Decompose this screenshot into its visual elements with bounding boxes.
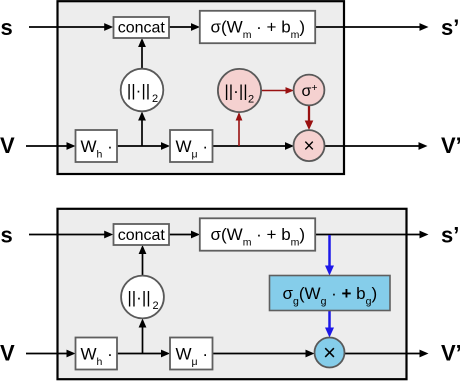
wire norm circle to concat (top) [141,46,143,70]
red wire branch up from V line to pink norm circle [238,120,240,146]
multiply circle (top, pink) [294,130,325,161]
svg-text:2: 2 [152,93,158,105]
norm circle (top, white) [121,69,164,112]
wire V input line (top) [26,145,67,147]
wire s input line (bottom) [29,234,105,236]
wire norm circle to concat (bottom) [142,253,144,276]
wire V input line (bottom) [26,353,67,355]
blue wire branch down from s-prime line to gate box [328,235,331,267]
wire blue multiply circle to V-prime output (bottom) [345,353,420,355]
svg-text:s: s [1,15,13,40]
bottom module outer box [58,209,407,379]
svg-text:||·||: ||·|| [127,81,150,100]
sigma-plus circle (pink) [294,75,325,106]
svg-text:V’: V’ [441,133,460,158]
wire concat to sigma box (bottom) [169,234,192,236]
svg-text:concat: concat [118,227,166,244]
pink norm circle [218,69,261,112]
red wire pink norm circle to sigma-plus circle [261,90,286,92]
wire sigma box to s-prime output (bottom) [315,234,420,236]
sigma(Wm + bm) box (top) [200,11,315,43]
wire Wmu to multiply circle (top) [213,145,286,147]
concat box (top) [114,17,170,38]
svg-text:V’: V’ [441,341,460,366]
svg-text:s: s [1,222,13,247]
wire s input line (top) [29,26,105,28]
svg-text:||·||: ||·|| [127,288,150,307]
norm circle (bottom, white) [121,276,164,319]
wire branch up from V line to norm circle (top) [141,120,143,147]
top module outer box [58,1,345,174]
Wh box (bottom) [76,338,118,370]
wire branch up from V line to norm circle (bottom) [142,327,144,354]
svg-text:V: V [0,341,15,366]
wire multiply circle to V-prime output (top) [325,145,419,147]
blue multiply circle [315,338,345,368]
gate box sigma-g (blue) [270,276,391,311]
wire sigma box to s-prime output (top) [315,26,420,28]
wire concat to sigma box (top) [169,26,192,28]
Wmu box (bottom) [170,338,213,370]
svg-text:2: 2 [153,300,159,312]
red wire sigma-plus circle down to multiply circle [308,105,310,122]
svg-text:||·||: ||·|| [224,82,247,101]
Wmu box (top) [170,130,213,162]
svg-text:×: × [323,340,336,365]
wire Wmu to blue multiply circle [213,353,307,355]
svg-text:s’: s’ [441,15,459,40]
blue wire gate box down to blue multiply circle [328,311,331,329]
sigma(Wm + bm) box (bottom) [200,218,315,250]
svg-text:2: 2 [248,94,254,106]
wire Wh to Wmu (top) [117,145,162,147]
svg-text:s’: s’ [441,222,459,247]
Wh box (top) [76,130,118,162]
wire Wh to Wmu (bottom) [117,353,162,355]
concat box (bottom) [114,224,170,245]
svg-text:×: × [303,136,314,157]
svg-text:concat: concat [118,20,166,37]
svg-text:V: V [0,133,15,158]
